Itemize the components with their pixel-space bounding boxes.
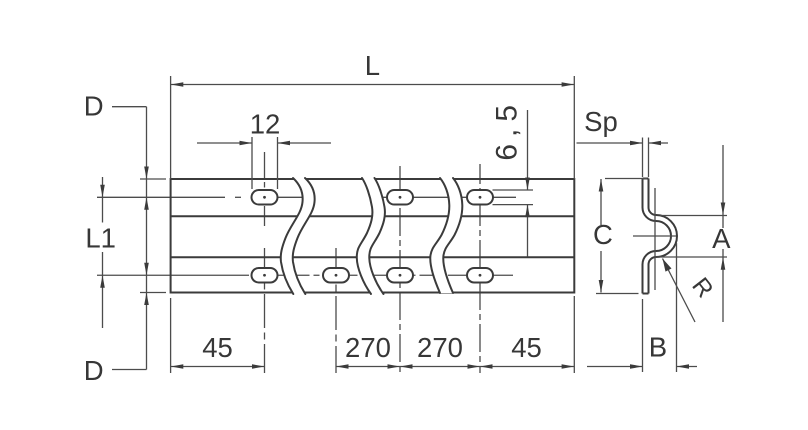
rail bottom edge extension tick: [140, 292, 166, 294]
dim C label: [593, 219, 613, 250]
extension line bottom slot 2: [335, 248, 337, 373]
slot hole top 1: [252, 190, 278, 205]
dim 270 left line: [336, 364, 400, 369]
dim L1 arrows: [100, 185, 105, 288]
dim L extension left: [170, 76, 172, 179]
rail fold line upper: [171, 215, 575, 217]
slot hole bottom 4: [467, 268, 493, 283]
centerline top hole row: [97, 196, 516, 198]
dim L1 line: [102, 177, 104, 328]
dim 45 left line: [171, 364, 265, 369]
dim 12 line: [197, 141, 331, 146]
svg-text:C: C: [593, 219, 613, 250]
dim R leader: [663, 259, 696, 323]
rail top edge extension tick: [140, 178, 166, 180]
rail fold line lower: [171, 256, 575, 258]
svg-text:270: 270: [417, 332, 463, 363]
break line pair 2: [357, 178, 385, 294]
centerline bottom hole row: [97, 274, 513, 276]
dim 12 extension lines: [252, 137, 278, 189]
slot hole bottom 3: [387, 268, 413, 283]
dim Sp extension lines: [643, 138, 649, 178]
dim 6,5 line: [525, 110, 530, 257]
dim R label: [686, 273, 718, 303]
dim D bottom leader: [112, 369, 147, 371]
dim D top leader: [112, 106, 147, 108]
slot hole bottom 2: [323, 268, 349, 283]
svg-text:L: L: [365, 50, 380, 81]
extension line bottom slot 1: [264, 248, 266, 373]
section profile bottom end cap: [643, 293, 649, 295]
dim Sp label: [584, 106, 618, 137]
svg-text:12: 12: [250, 109, 281, 140]
slot hole top 3: [467, 190, 493, 205]
break line pair 1: [281, 178, 315, 294]
dim 6,5 extension lines: [493, 190, 534, 205]
dim B extension right: [676, 243, 678, 372]
dim row extension right: [573, 296, 575, 373]
slot hole top 2: [387, 190, 413, 205]
dim 6,5 label: [491, 98, 524, 161]
dim C line: [599, 179, 604, 293]
dim L line: [171, 82, 574, 87]
section profile outer surface: [649, 179, 678, 294]
dim D vertical line: [146, 107, 148, 370]
dim B label: [649, 332, 667, 363]
svg-text:D: D: [84, 355, 104, 386]
dim 45 right line: [480, 364, 574, 369]
dim 270 right line: [400, 364, 480, 369]
dim 270 right label: [417, 332, 463, 363]
svg-text:D: D: [84, 91, 104, 122]
dim L extension right: [573, 76, 575, 179]
dim L label: [365, 50, 380, 81]
section profile top end cap: [643, 178, 649, 180]
section bead vertical centerline: [654, 188, 656, 290]
centerline slots x480 vertical: [479, 164, 481, 373]
rail outline: [171, 179, 575, 293]
svg-text:270: 270: [345, 332, 391, 363]
dim A extension top: [660, 215, 727, 217]
svg-text:45: 45: [511, 332, 542, 363]
dim B extension left: [642, 299, 644, 372]
svg-text:B: B: [649, 332, 667, 363]
dim Sp line: [577, 141, 669, 146]
dim C extension top: [605, 178, 647, 180]
dim C extension bottom: [596, 293, 639, 295]
svg-text:6,5: 6,5: [491, 98, 524, 161]
dim D top label: [84, 91, 104, 122]
dim A line: [721, 145, 726, 322]
svg-text:A: A: [712, 223, 731, 254]
section profile inner surface: [643, 179, 672, 294]
svg-text:45: 45: [202, 332, 233, 363]
dim 45 left label: [202, 332, 233, 363]
dim L1 label: [85, 223, 116, 254]
svg-text:Sp: Sp: [584, 106, 618, 137]
dim A extension bottom: [655, 256, 727, 258]
dim A label: [712, 223, 731, 254]
dim D top arrows: [144, 167, 149, 210]
dim D bottom label: [84, 355, 104, 386]
dim B line: [587, 364, 697, 369]
slot hole bottom 1: [252, 268, 278, 283]
dim D bottom arrows: [144, 263, 149, 305]
centerline slots x400 vertical: [399, 166, 401, 373]
dim 12 label: [250, 109, 281, 140]
dim row extension left: [170, 298, 172, 373]
dim 270 left label: [345, 332, 391, 363]
break line pair 3: [430, 178, 462, 293]
centerline slot T1 vertical: [264, 152, 266, 226]
svg-text:L1: L1: [85, 223, 116, 254]
section bead centerline: [633, 235, 676, 237]
dim 45 right label: [511, 332, 542, 363]
